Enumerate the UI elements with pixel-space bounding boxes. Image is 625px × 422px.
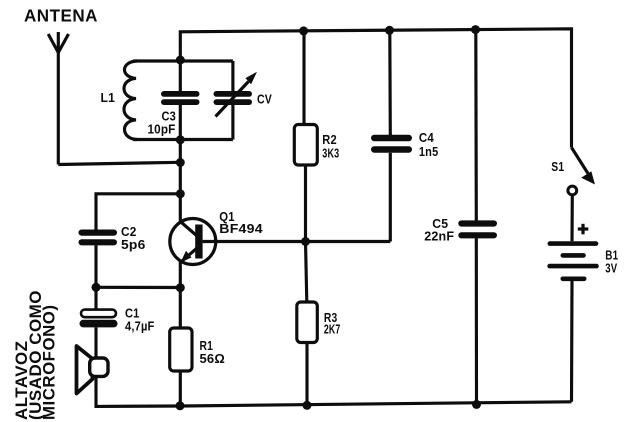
wire battery to ground rail — [570, 281, 574, 402]
svg-text:22nF: 22nF — [424, 229, 454, 244]
svg-text:L1: L1 — [101, 90, 116, 105]
node C1 top — [92, 283, 101, 292]
resistor R1 — [170, 328, 192, 371]
node tank bottom — [176, 135, 185, 144]
wire R3 top lead — [306, 242, 307, 303]
speaker LS1 magnet — [90, 358, 108, 376]
speaker LS1 cone — [77, 346, 93, 394]
wire S1 to battery — [570, 195, 573, 241]
transistor Q1 — [170, 219, 390, 265]
capacitor C1 electrolytic — [80, 310, 118, 328]
switch S1 blade — [572, 148, 596, 185]
label B1 value — [605, 248, 618, 276]
wire C2 to C1 node — [94, 245, 97, 287]
wire tank top — [133, 59, 233, 62]
label R3 value — [324, 310, 341, 337]
label ANTENA — [24, 6, 98, 26]
svg-text:C4: C4 — [419, 130, 434, 145]
wire tank bottom — [133, 138, 233, 141]
node top rail C5 — [471, 25, 480, 34]
label R1 value — [200, 338, 226, 366]
wire top rail — [180, 29, 571, 148]
svg-text:2K7: 2K7 — [324, 322, 341, 337]
label C1 value — [125, 306, 155, 334]
wire antenna to node — [58, 162, 180, 164]
svg-text:3V: 3V — [605, 260, 617, 275]
node ground R3 — [303, 401, 312, 410]
label L1 — [101, 90, 116, 105]
capacitor C3 — [161, 91, 200, 105]
svg-text:1n5: 1n5 — [419, 144, 439, 159]
battery B1 plus sign — [578, 224, 589, 235]
svg-text:S1: S1 — [551, 159, 564, 174]
switch S1 contact — [568, 186, 577, 195]
wire ground rail — [181, 402, 572, 406]
wire C4 bottom lead — [389, 153, 392, 242]
wire R2 bottom lead — [304, 165, 307, 242]
wire speaker to ground rail — [96, 375, 181, 406]
label C4 value — [419, 130, 439, 159]
wire R1 to ground rail — [179, 371, 182, 406]
label ALTAVOZ rotated — [13, 290, 58, 420]
capacitor CV (variable) — [214, 61, 258, 140]
node ground C5 — [472, 400, 481, 409]
svg-text:MICROFONO): MICROFONO) — [40, 305, 58, 421]
svg-text:10pF: 10pF — [148, 122, 176, 137]
wire R3 bottom lead — [305, 343, 308, 406]
wire C1 top lead — [94, 287, 97, 309]
svg-text:3K3: 3K3 — [322, 145, 339, 160]
node top rail C4 — [385, 26, 394, 35]
resistor R2 — [294, 125, 317, 166]
label Q1 type — [219, 209, 263, 236]
node top rail R2 — [299, 26, 308, 35]
label R2 value — [322, 132, 339, 160]
node antenna junction — [176, 158, 185, 167]
node emitter junction — [176, 283, 185, 292]
battery B1 — [547, 241, 599, 281]
svg-text:5p6: 5p6 — [121, 237, 146, 252]
inductor L1 — [124, 61, 137, 140]
svg-text:CV: CV — [257, 92, 272, 107]
wire C5 bottom lead — [475, 238, 478, 404]
node base junction — [301, 237, 310, 246]
wire C5 top lead — [474, 30, 478, 221]
svg-text:BF494: BF494 — [219, 221, 263, 236]
label C5 value — [424, 216, 454, 244]
label C2 value — [121, 224, 146, 252]
node tank top — [176, 56, 185, 65]
wire emitter horizontal — [96, 286, 180, 289]
wire main vertical C3 lower to Q1 — [179, 105, 182, 223]
capacitor C4 — [371, 135, 412, 153]
wire main vertical C3 upper — [179, 60, 182, 91]
capacitor C2 — [79, 230, 118, 246]
svg-text:56Ω: 56Ω — [200, 351, 226, 366]
capacitor C5 — [458, 220, 497, 238]
wire R2 top lead — [302, 31, 305, 125]
label CV — [257, 92, 272, 107]
svg-text:ANTENA: ANTENA — [24, 6, 98, 26]
label S1 — [551, 159, 564, 174]
node ground R1 — [176, 401, 185, 410]
resistor R3 — [297, 302, 318, 343]
wire C4 top lead — [388, 30, 392, 135]
wire C1 to speaker — [94, 327, 97, 357]
label C3 value — [148, 109, 177, 137]
wire emitter to R1 — [179, 262, 182, 329]
node C2 branch junction — [176, 189, 185, 198]
svg-text:4,7µF: 4,7µF — [125, 319, 155, 334]
wire C2 branch top — [96, 194, 180, 230]
antenna AN1 — [48, 32, 68, 165]
